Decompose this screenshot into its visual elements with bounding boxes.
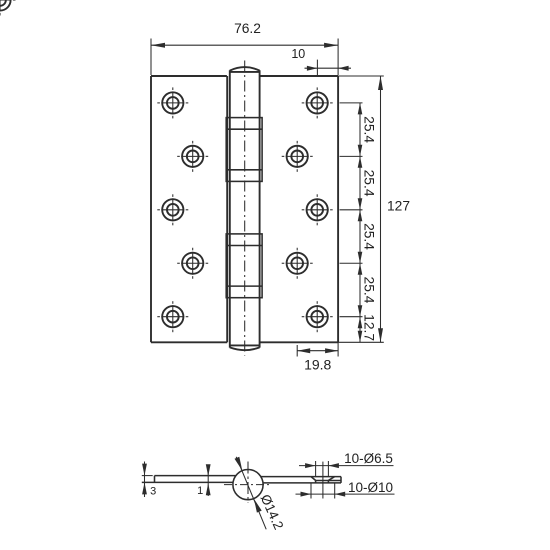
svg-text:19.8: 19.8 xyxy=(304,356,331,372)
svg-text:25.4: 25.4 xyxy=(361,170,376,197)
svg-text:10-Ø6.5: 10-Ø6.5 xyxy=(344,451,393,466)
svg-text:127: 127 xyxy=(387,199,410,214)
svg-text:3: 3 xyxy=(150,486,156,498)
svg-text:25.4: 25.4 xyxy=(361,116,376,143)
svg-text:10: 10 xyxy=(291,47,305,61)
svg-text:1: 1 xyxy=(197,485,203,497)
svg-text:25.4: 25.4 xyxy=(361,223,376,250)
svg-text:10-Ø10: 10-Ø10 xyxy=(348,480,393,495)
svg-text:25.4: 25.4 xyxy=(361,277,376,304)
svg-text:12.7: 12.7 xyxy=(361,314,376,341)
svg-text:76.2: 76.2 xyxy=(234,21,261,36)
